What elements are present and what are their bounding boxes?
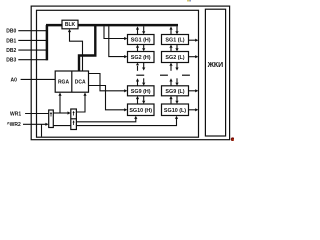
svg-text:WR1: WR1 [10, 111, 21, 117]
svg-text:SG2 (L): SG2 (L) [165, 55, 184, 61]
svg-text:DB1: DB1 [6, 38, 16, 44]
svg-text:SG2 (H): SG2 (H) [131, 55, 151, 61]
svg-text:DCA: DCA [75, 80, 86, 86]
svg-text:ЖКИ: ЖКИ [207, 62, 224, 69]
svg-text:BLK: BLK [65, 22, 76, 28]
svg-text:^WR2: ^WR2 [7, 122, 21, 128]
svg-text:SG9 (H): SG9 (H) [131, 89, 151, 95]
svg-text:SG10 (L): SG10 (L) [164, 108, 186, 114]
svg-text:SG10 (H): SG10 (H) [129, 108, 152, 114]
svg-text:A0: A0 [11, 77, 18, 83]
svg-text:DB3: DB3 [6, 58, 16, 64]
svg-text:SG1 (H): SG1 (H) [131, 38, 151, 44]
svg-text:DB2: DB2 [6, 48, 16, 54]
svg-text:SG1 (L): SG1 (L) [165, 38, 184, 44]
svg-text:SG9 (L): SG9 (L) [165, 89, 184, 95]
svg-text:DB0: DB0 [6, 29, 16, 35]
svg-text:RGA: RGA [58, 80, 70, 86]
